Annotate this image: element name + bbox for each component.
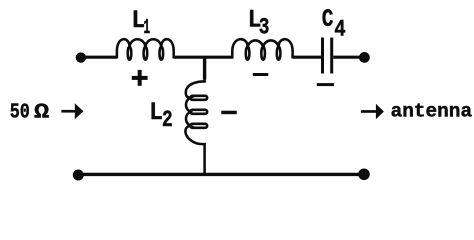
inductor L1 <box>117 39 174 60</box>
polarity - right of L2 <box>221 111 236 115</box>
inductor L2 <box>185 79 207 174</box>
wire: top-left stub from input node to L1 <box>81 56 117 59</box>
node: output top-right terminal <box>359 52 370 63</box>
wire: junction vertical drop to L2 <box>203 56 206 80</box>
polarity - below L3 <box>253 73 268 76</box>
wire: bottom rail <box>78 173 364 176</box>
wire: top middle from L1 to L3 through junction <box>174 56 233 59</box>
svg-text:4: 4 <box>334 17 346 43</box>
svg-text:3: 3 <box>259 15 270 42</box>
svg-text:Ω: Ω <box>34 101 49 125</box>
svg-text:50: 50 <box>10 101 30 125</box>
node: bottom-left terminal <box>73 170 84 181</box>
svg-text:antenna: antenna <box>391 100 473 122</box>
polarity + below L1 <box>132 70 148 86</box>
wire: from L3 to C4 <box>293 56 321 59</box>
node: input top-left terminal <box>76 52 86 62</box>
svg-text:2: 2 <box>162 107 173 133</box>
node: bottom-right terminal <box>358 169 370 181</box>
arrow: output to antenna <box>361 104 384 120</box>
polarity - below C4 <box>317 83 334 86</box>
arrow: input signal direction <box>61 103 83 119</box>
inductor L3 <box>232 39 292 60</box>
svg-text:L: L <box>149 98 163 127</box>
svg-text:C: C <box>322 5 334 34</box>
svg-text:1: 1 <box>144 16 151 40</box>
capacitor C4 <box>321 38 333 74</box>
wire: from C4 to output node <box>333 56 364 59</box>
